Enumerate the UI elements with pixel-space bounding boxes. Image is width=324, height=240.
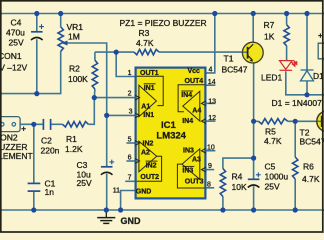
svg-text:GND: GND bbox=[136, 188, 152, 195]
wire T1 emitter down to C5 bbox=[253, 63, 255, 180]
wire R7 top stub bbox=[286, 14, 288, 25]
wire +V top rail bbox=[0, 13, 324, 15]
svg-text:A4: A4 bbox=[192, 108, 201, 115]
svg-text:OUT4: OUT4 bbox=[185, 78, 204, 85]
wire pin3 bbox=[107, 114, 135, 116]
op-amp A4 bbox=[178, 85, 205, 121]
wire CON1 negative to VR1 bottom bbox=[0, 51, 61, 93]
svg-text:IN2: IN2 bbox=[146, 162, 157, 169]
svg-text:9V –12V: 9V –12V bbox=[0, 63, 27, 73]
wire R6 top bbox=[294, 121, 296, 157]
svg-text:9: 9 bbox=[208, 163, 212, 170]
svg-text:13: 13 bbox=[208, 99, 216, 106]
svg-text:BC547: BC547 bbox=[222, 65, 248, 75]
wire node OUT1 horizontal bbox=[95, 51, 134, 53]
svg-text:T1: T1 bbox=[224, 54, 234, 64]
wire pin1 drop bbox=[116, 52, 135, 76]
svg-text:Vcc: Vcc bbox=[188, 68, 201, 75]
svg-text:220n: 220n bbox=[41, 145, 60, 155]
svg-text:10: 10 bbox=[207, 144, 215, 151]
op-amp A3 bbox=[177, 149, 204, 188]
svg-text:LED1: LED1 bbox=[261, 73, 283, 83]
wire pin5 stub bbox=[126, 142, 134, 144]
svg-text:1: 1 bbox=[128, 70, 132, 77]
wire R4 bottom bbox=[222, 197, 224, 211]
svg-text:R6: R6 bbox=[303, 162, 314, 172]
svg-text:10K: 10K bbox=[232, 182, 247, 192]
transistor T2 (cut off at edge) bbox=[317, 111, 324, 132]
wire C1 bottom bbox=[33, 191, 35, 210]
wire C1 top bbox=[33, 124, 35, 183]
svg-text:7: 7 bbox=[128, 175, 132, 182]
resistor R7 bbox=[284, 25, 289, 46]
svg-text:IN4: IN4 bbox=[182, 118, 193, 125]
wire R3 to T1 base bbox=[159, 51, 243, 53]
svg-text:8: 8 bbox=[207, 181, 211, 188]
wire pin9 stub bbox=[206, 169, 214, 171]
svg-text:C4: C4 bbox=[11, 18, 22, 28]
svg-text:11: 11 bbox=[113, 187, 120, 194]
resistor R5 bbox=[258, 119, 287, 124]
capacitor C4 bbox=[31, 31, 43, 33]
wire pin13 stub bbox=[206, 102, 215, 104]
svg-text:1n: 1n bbox=[45, 187, 55, 197]
junction dots bbox=[34, 11, 39, 16]
capacitor C3 bbox=[101, 166, 113, 168]
svg-text:14: 14 bbox=[208, 79, 216, 86]
svg-text:25V: 25V bbox=[77, 178, 92, 188]
resistor R1 bbox=[63, 122, 89, 127]
wire pin8 stub bbox=[206, 187, 214, 189]
resistor R3 bbox=[134, 49, 159, 54]
wire R2 top stub bbox=[94, 52, 96, 60]
svg-text:1K: 1K bbox=[264, 32, 275, 42]
op-amp IC1 LM324 bbox=[136, 68, 206, 199]
wire C4 bottom bbox=[36, 39, 38, 93]
svg-text:IN4: IN4 bbox=[181, 92, 192, 99]
svg-text:IN2: IN2 bbox=[143, 140, 154, 147]
wire R7 to LED1 bbox=[286, 46, 288, 60]
svg-text:12: 12 bbox=[208, 115, 216, 122]
svg-text:A2: A2 bbox=[141, 150, 150, 157]
resistor R2 bbox=[92, 60, 97, 89]
svg-text:1000u: 1000u bbox=[265, 171, 289, 181]
svg-text:IC1: IC1 bbox=[161, 120, 177, 131]
wire pin7 stub bbox=[125, 180, 135, 182]
svg-text:25V: 25V bbox=[265, 181, 280, 191]
wire ground bottom rail bbox=[0, 209, 324, 211]
ground bbox=[105, 210, 107, 217]
svg-text:PZ1 = PIEZO BUZZER: PZ1 = PIEZO BUZZER bbox=[120, 18, 207, 28]
connector CON2 bbox=[0, 117, 20, 132]
capacitor C1 bbox=[28, 182, 41, 184]
svg-text:D1 = 1N4007: D1 = 1N4007 bbox=[272, 98, 323, 108]
svg-text:BC547: BC547 bbox=[300, 137, 324, 147]
svg-text:C2: C2 bbox=[41, 136, 52, 146]
svg-text:100K: 100K bbox=[68, 74, 88, 84]
svg-text:R3: R3 bbox=[139, 28, 150, 38]
wire C4 top bbox=[36, 14, 38, 32]
wire pin12 stub bbox=[206, 120, 215, 122]
svg-text:A3: A3 bbox=[192, 157, 201, 164]
wire D1 anode to node bbox=[306, 81, 308, 95]
wire VR1 top stub bbox=[60, 14, 62, 27]
svg-text:C5: C5 bbox=[265, 162, 276, 172]
svg-text:R5: R5 bbox=[265, 127, 276, 137]
svg-text:A1: A1 bbox=[141, 103, 150, 110]
svg-text:R7: R7 bbox=[264, 20, 275, 30]
svg-text:1M: 1M bbox=[68, 32, 80, 42]
svg-text:IN1: IN1 bbox=[143, 112, 154, 119]
op-amp A1 bbox=[137, 76, 164, 116]
wire C3 bottom to ground rail bbox=[106, 174, 108, 210]
svg-text:R1: R1 bbox=[66, 134, 77, 144]
wire C2 to R1 bbox=[51, 123, 62, 125]
wire pin6 stub bbox=[126, 160, 134, 162]
svg-text:4.7K: 4.7K bbox=[136, 38, 154, 48]
wire pin2 bbox=[94, 97, 135, 99]
svg-text:VR1: VR1 bbox=[67, 22, 84, 32]
resistor R6 bbox=[293, 157, 298, 179]
svg-text:OUT2: OUT2 bbox=[140, 174, 159, 181]
svg-text:OUT1: OUT1 bbox=[140, 70, 159, 77]
wire R5 right to T2 base bbox=[288, 120, 317, 122]
svg-text:R2: R2 bbox=[69, 64, 80, 74]
svg-text:OUT3: OUT3 bbox=[185, 179, 204, 186]
wire T1 collector to rail bbox=[252, 14, 254, 44]
wire pin14 stub bbox=[206, 84, 215, 86]
svg-text:R4: R4 bbox=[232, 171, 243, 181]
svg-text:4.7K: 4.7K bbox=[302, 174, 320, 184]
wire VR1 wiper to pin3 and C3 bbox=[67, 43, 107, 167]
LED LED1 bbox=[280, 60, 297, 70]
svg-text:IN3: IN3 bbox=[182, 168, 193, 175]
capacitor C2 bbox=[42, 119, 44, 130]
wire R5 left stub bbox=[254, 120, 259, 122]
svg-text:4.7K: 4.7K bbox=[264, 136, 282, 146]
svg-text:LM324: LM324 bbox=[156, 131, 186, 142]
transistor T1 bbox=[242, 42, 263, 63]
svg-text:1.2K: 1.2K bbox=[65, 144, 83, 154]
wire D1 top to rail bbox=[306, 14, 308, 71]
svg-text:GND: GND bbox=[121, 216, 142, 226]
wire C5 bottom bbox=[253, 186, 255, 210]
svg-text:IN1: IN1 bbox=[144, 85, 155, 92]
svg-text:470u: 470u bbox=[6, 28, 25, 38]
wire R4 link to emitter node bbox=[223, 158, 254, 168]
resistor R4 bbox=[220, 169, 225, 197]
svg-text:5: 5 bbox=[128, 137, 132, 144]
svg-text:25V: 25V bbox=[9, 38, 24, 48]
wire pin10 stub bbox=[206, 150, 215, 152]
svg-text:ELEMENT: ELEMENT bbox=[0, 151, 33, 161]
wire R2 bottom to R1 junction bbox=[88, 89, 95, 124]
svg-text:CON1: CON1 bbox=[0, 51, 22, 61]
wire pin11 to ground rail bbox=[121, 191, 135, 211]
capacitor C5 bbox=[248, 178, 260, 180]
wire pin4 Vcc to top rail bbox=[206, 14, 214, 73]
potentiometer VR1 bbox=[58, 27, 63, 51]
svg-text:4: 4 bbox=[209, 66, 213, 73]
wire CON2 to C2 bbox=[20, 123, 42, 125]
svg-text:3: 3 bbox=[129, 109, 133, 116]
wire LED1 cathode to collector node bbox=[286, 71, 324, 95]
svg-text:6: 6 bbox=[128, 155, 132, 162]
svg-text:IN3: IN3 bbox=[183, 148, 194, 155]
op-amp A2 bbox=[137, 141, 162, 181]
svg-text:2: 2 bbox=[128, 91, 132, 98]
diode D1 bbox=[301, 70, 314, 81]
wire R6 bottom bbox=[294, 179, 296, 210]
piezo buzzer PZ1 (cut off at edge) bbox=[318, 43, 324, 59]
